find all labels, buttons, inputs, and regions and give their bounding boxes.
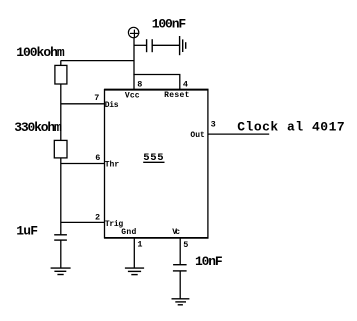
wire C3 to ground xyxy=(179,271,181,299)
ground G4 xyxy=(172,299,190,305)
op-amp U1 555 box xyxy=(104,89,208,238)
svg-text:3: 3 xyxy=(211,120,216,130)
wire R1 bottom to R2 xyxy=(60,84,62,140)
resistor R2 330kohm xyxy=(54,140,67,158)
svg-text:100kohm: 100kohm xyxy=(16,45,65,60)
ground G1 xyxy=(51,268,71,274)
ground G2 sideways xyxy=(180,36,186,55)
wire pin3 Out xyxy=(208,133,269,135)
svg-text:Reset: Reset xyxy=(164,91,189,100)
svg-text:Vcc: Vcc xyxy=(125,91,140,100)
wire R1 top stub xyxy=(60,61,62,66)
wire R1 top horizontal xyxy=(61,60,134,62)
svg-text:100nF: 100nF xyxy=(152,17,187,32)
wire to C2 left xyxy=(134,44,147,46)
power symbol VCC xyxy=(128,27,139,38)
wire C2 to ground xyxy=(152,44,179,46)
svg-text:10nF: 10nF xyxy=(195,254,223,269)
svg-text:1: 1 xyxy=(137,240,142,250)
wire notch top pin8-pin4 xyxy=(133,74,180,76)
svg-text:Out: Out xyxy=(190,131,205,140)
svg-text:2: 2 xyxy=(95,213,100,223)
svg-text:Vc: Vc xyxy=(172,228,180,237)
svg-text:8: 8 xyxy=(137,79,142,89)
wire VCC vertical xyxy=(133,38,135,90)
wire pin4 stub xyxy=(179,75,181,90)
svg-text:4: 4 xyxy=(183,79,188,89)
svg-text:Gnd: Gnd xyxy=(121,228,136,237)
wire C1 to ground xyxy=(60,240,62,268)
svg-text:Thr: Thr xyxy=(105,160,120,169)
capacitor C1 1uF xyxy=(54,235,67,240)
svg-text:7: 7 xyxy=(94,93,99,103)
svg-text:330kohm: 330kohm xyxy=(14,120,62,135)
wire pin1 stub xyxy=(133,238,135,268)
svg-text:555: 555 xyxy=(143,152,163,164)
wire pin6 Thr xyxy=(61,163,105,165)
ground G3 xyxy=(125,268,144,275)
svg-text:5: 5 xyxy=(183,240,188,250)
555 underline xyxy=(143,161,164,163)
wire pin5 stub xyxy=(179,238,181,265)
svg-text:6: 6 xyxy=(95,153,100,163)
wire pin7 Dis xyxy=(61,103,105,105)
resistor R1 100kohm xyxy=(55,65,67,84)
capacitor C2 100nF xyxy=(147,39,153,52)
svg-text:1uF: 1uF xyxy=(16,224,38,239)
wire R2 bottom to C1 xyxy=(60,158,62,235)
capacitor C3 10nF xyxy=(173,265,187,271)
svg-text:Dis: Dis xyxy=(105,101,119,110)
wire pin2 Trig xyxy=(61,221,105,223)
svg-text:Clock al 4017: Clock al 4017 xyxy=(237,119,345,134)
